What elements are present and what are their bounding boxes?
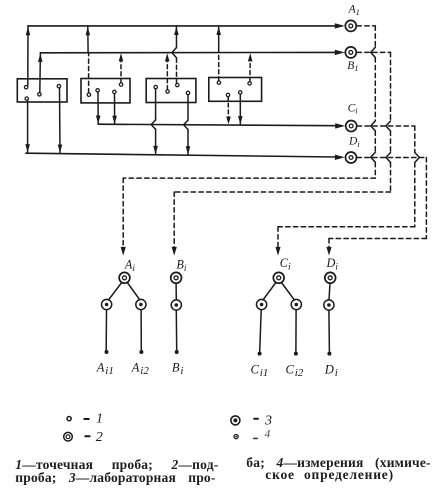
wire row A horizontal [28, 25, 336, 27]
svg-text:Ci: Ci [348, 103, 359, 116]
tree B top sub-sample circle [171, 272, 182, 283]
hop of path C over row D [415, 153, 420, 163]
tree A top sub-sample circle [119, 272, 130, 283]
arrow down to tree D [326, 247, 331, 256]
caption right line 2 [265, 467, 394, 483]
caption right line 1 [246, 455, 430, 471]
tree A measurement dot right [139, 350, 143, 354]
hop of path B over row C [386, 121, 391, 131]
legend dash 3 [254, 418, 258, 420]
tree C right branch [282, 283, 295, 300]
tree D lab sample [324, 300, 334, 310]
tree D top sub-sample circle [325, 272, 336, 283]
tree A stem right [140, 310, 142, 350]
svg-text:Bi: Bi [176, 258, 186, 274]
arrow into Di [335, 155, 345, 160]
svg-text:Ci2: Ci2 [286, 362, 304, 378]
wire box4 down to row C (right) [239, 94, 241, 124]
tree A measurement dot left [105, 350, 109, 354]
svg-text:Ci1: Ci1 [251, 362, 269, 378]
legend dash 4 [254, 437, 258, 439]
svg-text:Bi: Bi [172, 361, 184, 377]
wire row B horizontal [40, 51, 336, 53]
tree A stem left [105, 310, 107, 350]
svg-text:2: 2 [96, 430, 103, 445]
hop of path B over row D [386, 153, 391, 163]
hop of path A over row B [371, 47, 376, 57]
tree C stem right [295, 310, 297, 352]
sub-sample circle Di [346, 152, 357, 163]
legend symbol 1 point sample [67, 417, 71, 421]
wire box1 to row A [27, 26, 29, 86]
tree A left branch [109, 283, 122, 300]
point sample circles box 3 [154, 85, 157, 88]
tree A right branch [127, 283, 139, 300]
wire row C horizontal [98, 124, 336, 126]
svg-text:Ai1: Ai1 [96, 361, 114, 377]
point sample circles box 1 [24, 86, 27, 89]
caption left line 2 [15, 470, 215, 486]
box 3 [146, 79, 196, 103]
tree C left branch [263, 283, 276, 300]
svg-text:4: 4 [265, 429, 271, 441]
arrow down to tree C [275, 247, 280, 256]
caption left line 1 [15, 457, 218, 473]
wire row D horizontal [26, 153, 336, 157]
sub-sample circle A1 [345, 20, 356, 31]
tree C measurement dot right [294, 352, 298, 356]
point sample circles box 4 [217, 81, 220, 84]
legend symbol 3 lab sample [231, 416, 240, 425]
arrow down to tree B [172, 247, 177, 256]
dashed path from Di to tree D [329, 158, 426, 248]
legend symbol 2 sub-sample [64, 432, 73, 441]
tree A lab sample right [136, 299, 146, 309]
svg-text:Di: Di [348, 136, 360, 149]
wire box2 to row B dashed [120, 61, 122, 83]
box 2 [81, 79, 130, 103]
wire box2 down to row C (left) [97, 92, 99, 124]
svg-text:B1: B1 [347, 60, 358, 73]
sub-sample circle Ci [346, 121, 357, 132]
tree B stem lower [175, 310, 177, 350]
wire box4 to row B dashed [249, 61, 251, 82]
dashed path from Ci to tree C [278, 126, 415, 248]
svg-text:A1: A1 [348, 4, 360, 17]
wire box3 down to row D (right, hop at C) [187, 95, 189, 120]
wire box1 to row B [39, 53, 42, 93]
tree D measurement dot [327, 352, 331, 356]
tree C stem left [260, 310, 262, 352]
wire box2 to row A (dashed below row B) [88, 53, 90, 92]
arrow into Ci [335, 123, 345, 128]
wire box4 down to row C (left, dashed) [227, 97, 229, 117]
dashed path from B1 to tree B [174, 52, 390, 247]
tree C lab sample right [291, 299, 301, 309]
wire box2 down to row C (right) [114, 94, 116, 124]
svg-text:Di: Di [324, 362, 338, 378]
wire box1 down to row D (left) [27, 100, 29, 152]
dashed path from A1 to tree A [123, 26, 375, 248]
wire box3 to row A (dashed below row B, hop at B) [176, 58, 178, 84]
tree B stem upper [175, 283, 177, 299]
arrow into B1 [335, 50, 345, 55]
tree C top sub-sample circle [273, 272, 284, 283]
tree D stem upper [329, 283, 330, 300]
svg-text:Di: Di [326, 256, 339, 272]
box 1 [17, 79, 67, 102]
tree A lab sample left [102, 299, 112, 309]
wire box3 to row B dashed [166, 61, 168, 90]
legend dash 1 [84, 418, 89, 420]
tree B lab sample [171, 300, 181, 310]
wire box4 to row A (dashed below row B) [218, 53, 220, 80]
svg-text:Ai: Ai [124, 258, 135, 274]
tree C lab sample left [257, 299, 267, 309]
legend dash 2 [85, 435, 89, 437]
sub-sample circle B1 [345, 47, 356, 58]
wire box3 down to row D (left, hop at C) [155, 89, 157, 120]
legend symbol 4 measurement [234, 435, 238, 439]
tree C measurement dot left [258, 352, 262, 356]
wire box1 down to row D (right) [59, 88, 62, 153]
tree B measurement dot [175, 350, 179, 354]
arrow down to tree A [121, 247, 126, 256]
svg-text:Ci: Ci [280, 256, 291, 272]
svg-text:1: 1 [96, 412, 103, 427]
hop of path A over row C [371, 121, 376, 131]
svg-text:3: 3 [264, 414, 272, 429]
arrow into A1 [335, 23, 345, 28]
hop of path A over row D [371, 152, 376, 162]
box 4 [209, 78, 262, 102]
svg-text:Ai2: Ai2 [131, 361, 150, 377]
point sample circles box 2 [87, 93, 90, 96]
tree D stem lower [328, 310, 331, 351]
